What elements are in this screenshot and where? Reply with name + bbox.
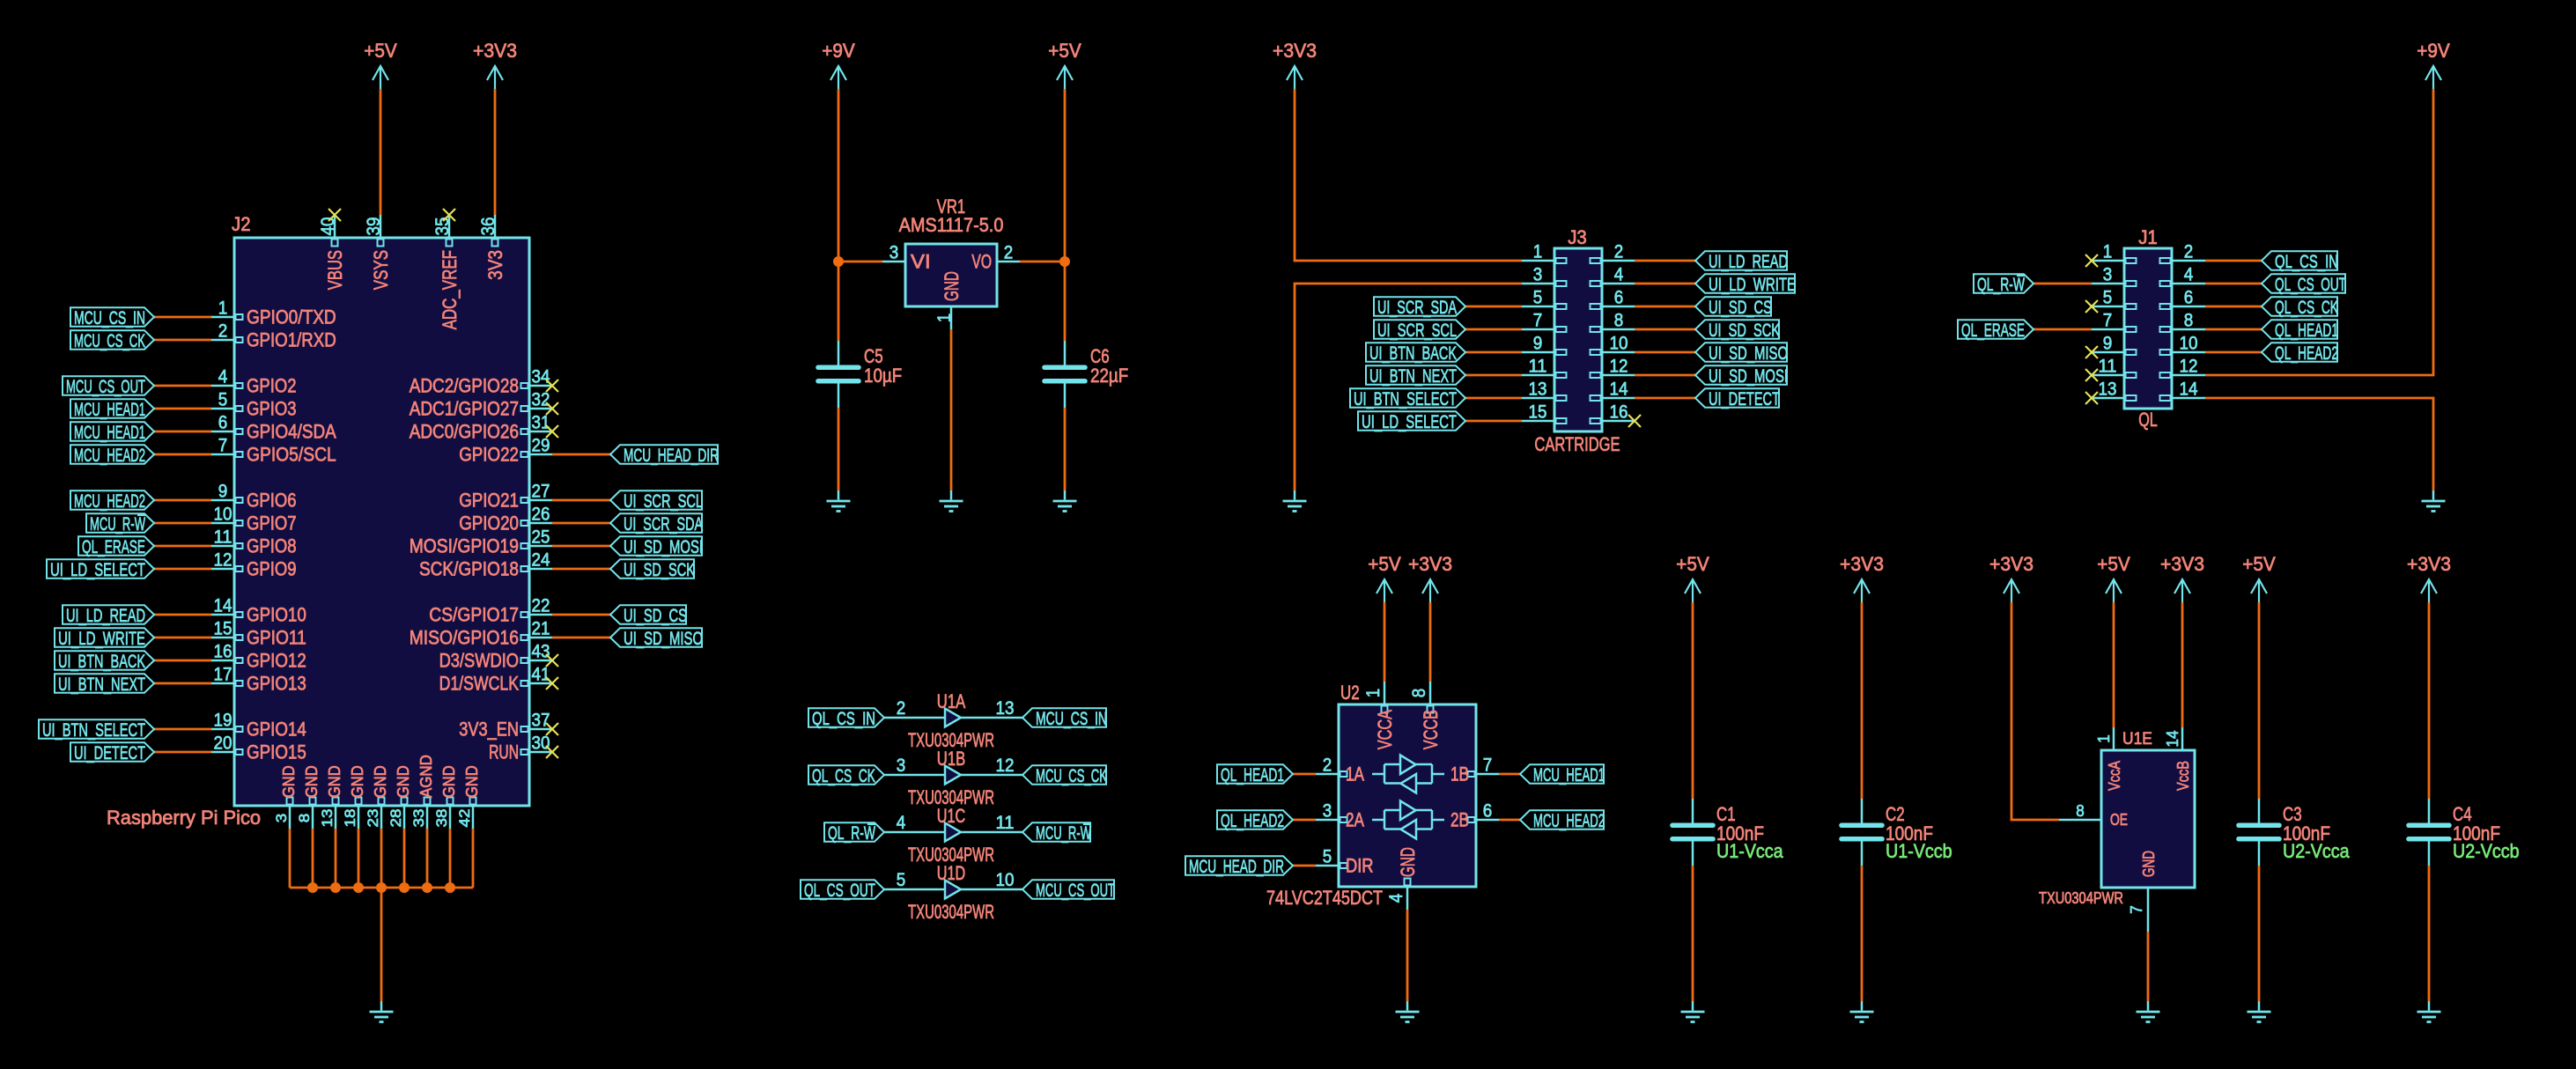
wire UI_BTN_NEXT to J3 pin 11 [1465,374,1522,377]
power symbol +5V above VR1 output [1048,40,1081,89]
wire C5 to ground [838,408,840,490]
svg-text:VCCB: VCCB [1420,710,1442,749]
power symbol +3V3 above J2 pin 36 (3V3) [473,40,517,89]
no-connect on J1 pin 1 [2085,254,2098,267]
svg-text:1B: 1B [1450,763,1469,785]
svg-text:VccB: VccB [2174,761,2192,791]
svg-text:QL_CS_OUT: QL_CS_OUT [2275,274,2346,295]
wire C2 to ground [1861,866,1864,1001]
ground symbol below U2 [1396,1001,1420,1022]
svg-text:UI_BTN_NEXT: UI_BTN_NEXT [58,674,145,695]
ground symbol below U1E [2137,1001,2160,1022]
global label QL_R-W [1974,274,2033,295]
svg-text:GPIO11: GPIO11 [247,627,306,649]
wire J1 pin 12 to +9V [2205,89,2433,375]
svg-text:AMS1117-5.0: AMS1117-5.0 [899,214,1004,236]
svg-text:GND: GND [303,765,321,798]
regulator VR1 body [905,244,997,306]
capacitor C1 [1672,799,1713,866]
power symbol +5V above C1 [1676,553,1709,602]
global label QL_ERASE [78,536,154,557]
wire J2 pin 3 to ground bus [289,829,292,888]
svg-text:UI_BTN_SELECT: UI_BTN_SELECT [1354,388,1457,409]
svg-text:36: 36 [478,217,498,236]
svg-text:10: 10 [214,505,233,525]
svg-text:ADC0/GPIO26: ADC0/GPIO26 [410,421,519,443]
power symbol +9V right of J1 [2417,40,2450,89]
svg-text:37: 37 [532,711,550,731]
global label QL_CS_IN [808,708,884,729]
wire J2 pin 8 to ground bus [312,829,314,888]
svg-text:GND: GND [326,765,343,798]
svg-text:QL_R-W: QL_R-W [828,822,875,844]
svg-text:12: 12 [214,550,233,571]
svg-text:23: 23 [365,809,381,828]
global label MCU_CS_IN [70,307,154,328]
J2 pin 26 (GPIO20) [459,505,552,534]
J3 pin 16 [1591,402,1635,424]
J2 pin 8 (GND) [296,765,321,829]
svg-text:2: 2 [2184,242,2194,262]
global label QL_HEAD2 [1217,810,1293,831]
svg-text:MCU_HEAD1: MCU_HEAD1 [74,422,145,443]
wire C6 to ground [1064,408,1067,490]
U1C pin 11 (output) [961,813,1022,833]
J2 pin 7 (GPIO5/SCL) [211,436,336,466]
global label UI_SD_MISO [1695,343,1788,364]
J2 pin 4 (GPIO2) [211,367,297,397]
global label MCU_HEAD1 [1520,764,1605,785]
global label UI_LD_SELECT [47,559,154,580]
J2 pin 11 (GPIO8) [211,527,297,557]
global label UI_BTN_BACK [55,651,154,672]
global label QL_HEAD1 [2262,320,2338,341]
wire MCU_HEAD2 to J2 pin 7 [154,453,211,456]
J1 pin 4 [2160,265,2206,287]
no-connect on J2 pin 32 [546,402,558,415]
J1 pin 5 [2092,288,2137,310]
J3 pin 13 [1522,380,1567,402]
J2 pin 37 (3V3_EN) [459,711,552,741]
svg-text:3: 3 [889,243,899,263]
svg-text:10: 10 [2180,334,2198,354]
svg-text:GPIO21: GPIO21 [459,490,519,512]
svg-text:2: 2 [1323,756,1332,776]
wire C3 to ground [2258,866,2261,1001]
svg-text:1: 1 [218,299,228,319]
svg-text:U1B: U1B [937,748,965,770]
wire J1 pin 2 to QL_CS_IN [2205,260,2262,262]
svg-text:40: 40 [318,217,338,236]
svg-text:14: 14 [2164,731,2181,748]
svg-text:QL: QL [2138,409,2158,431]
buffer U1A (TXU0304PWR) [908,690,994,751]
wire MCU_CS_CK to J2 pin 2 [154,339,211,342]
U2 bidirectional buffer glyph at 1A/B channel [1372,756,1444,793]
svg-text:ADC_VREF: ADC_VREF [439,250,461,329]
svg-text:U1C: U1C [937,805,965,827]
global label UI_SD_SCK [1695,320,1780,341]
wire MCU_HEAD2 to J2 pin 9 [154,499,211,502]
svg-text:9: 9 [2103,334,2113,354]
svg-text:1: 1 [2095,734,2113,743]
svg-text:2: 2 [897,698,906,719]
svg-text:GPIO1/RXD: GPIO1/RXD [247,329,336,351]
svg-text:MCU_CS_CK: MCU_CS_CK [1036,765,1107,786]
svg-text:25: 25 [532,527,550,548]
junction on ground bus [376,882,387,893]
global label QL_CS_IN [2262,251,2338,272]
wire J2 pin 28 to ground bus [403,829,406,888]
connector J3 body (CARTRIDGE) [1554,248,1602,431]
junction on ground bus [422,882,432,893]
J2 pin 15 (GPIO11) [211,619,306,649]
svg-text:7: 7 [2128,905,2145,914]
wire UI_LD_SELECT to J3 pin 15 [1465,420,1522,423]
wire +3V3 to U2 pin 8 [1429,602,1432,682]
power symbol +9V above VR1 [822,40,855,89]
global label UI_SD_CS [610,605,687,626]
U1B pin 12 (output) [961,756,1022,776]
ground symbol below VR1 [940,490,963,512]
svg-text:MCU_HEAD_DIR: MCU_HEAD_DIR [624,445,719,466]
J2 pin 41 (D1/SWCLK) [439,665,552,695]
svg-text:GND: GND [1397,847,1419,877]
J2 pin 43 (D3/SWDIO) [439,642,552,672]
no-connect on J1 pin 13 [2085,392,2098,404]
global label UI_LD_WRITE [55,628,154,649]
svg-text:MCU_HEAD2: MCU_HEAD2 [1533,810,1605,831]
wire QL_ERASE to J2 pin 11 [154,545,211,548]
svg-text:GPIO9: GPIO9 [247,558,297,580]
buffer U1B (TXU0304PWR) [908,748,994,808]
J2 pin 40 (VBUS) [318,215,346,290]
U2 pin 3 (2A) [1316,801,1364,831]
J3 pin 10 [1591,334,1635,356]
svg-text:J3: J3 [1568,226,1587,248]
svg-text:5: 5 [1323,847,1332,867]
svg-text:9: 9 [218,482,228,502]
wire J2 pin 18 to ground bus [358,829,360,888]
svg-text:9: 9 [1533,334,1543,354]
svg-text:UI_SCR_SCL: UI_SCR_SCL [624,490,703,512]
global label MCU_CS_CK [70,330,154,351]
svg-text:U1-Vcca: U1-Vcca [1716,840,1783,862]
no-connect on J1 pin 5 [2085,300,2098,313]
svg-text:MCU_CS_IN: MCU_CS_IN [1036,708,1107,729]
connector J1 body (QL) [2124,248,2172,409]
global label UI_SCR_SDA [610,513,703,534]
svg-text:MCU_HEAD_DIR: MCU_HEAD_DIR [1189,856,1284,877]
U1A pin 13 (output) [961,698,1022,719]
wire +3V3 to U1E pin 8 (OE) [2011,602,2059,820]
buffer U1D (TXU0304PWR) [908,862,994,923]
ground symbol below J1 pin 14 wire [2422,490,2446,512]
svg-text:14: 14 [214,596,233,616]
svg-text:+9V: +9V [822,40,855,62]
svg-text:QL_HEAD1: QL_HEAD1 [1221,764,1284,785]
svg-text:UI_SD_SCK: UI_SD_SCK [1709,320,1780,341]
junction on ground bus [445,882,455,893]
svg-text:GPIO0/TXD: GPIO0/TXD [247,306,336,328]
global label QL_R-W [824,822,884,844]
J3 pin 12 [1591,357,1635,379]
svg-text:4: 4 [218,367,228,387]
svg-text:3: 3 [897,756,906,776]
svg-text:U2-Vccb: U2-Vccb [2453,840,2520,862]
wire VR1 pin 2 to +5V node [1020,261,1065,263]
svg-text:U2: U2 [1340,682,1360,704]
svg-text:38: 38 [433,809,450,828]
svg-text:U1E: U1E [2122,729,2152,748]
svg-text:13: 13 [319,809,336,828]
svg-text:GPIO20: GPIO20 [459,512,519,534]
svg-text:30: 30 [532,734,550,754]
svg-text:ADC2/GPIO28: ADC2/GPIO28 [410,375,519,397]
svg-text:12: 12 [996,756,1015,776]
no-connect on J3 pin 16 [1628,415,1641,427]
svg-text:39: 39 [364,217,384,236]
U1E pin 7 (GND) [2128,851,2158,932]
J2 pin 30 (RUN) [489,734,552,763]
svg-text:MOSI/GPIO19: MOSI/GPIO19 [410,535,519,557]
wire J2 pin 26 to UI_SCR_SDA [552,522,610,525]
J1 pin 3 [2092,265,2137,287]
J3 pin 3 [1522,265,1567,287]
no-connect on J2 pin 40 [328,209,341,221]
svg-text:5: 5 [218,390,228,410]
svg-text:MCU_HEAD1: MCU_HEAD1 [1533,764,1605,785]
global label UI_DETECT [1695,388,1780,409]
svg-text:GPIO10: GPIO10 [247,604,306,626]
svg-text:29: 29 [532,436,550,456]
J1 pin 13 [2092,380,2137,402]
svg-text:UI_SD_CS: UI_SD_CS [624,605,687,626]
wire QL_R-W to J1 pin 3 [2033,283,2092,285]
wire VR1 pin 1 to ground [950,329,953,490]
svg-text:27: 27 [532,482,550,502]
J2 pin 28 (GND) [388,765,412,829]
svg-text:TXU0304PWR: TXU0304PWR [908,901,994,923]
U1E pin 1 (VccA) [2095,727,2123,791]
no-connect on J2 pin 31 [546,425,558,438]
svg-text:31: 31 [532,413,550,433]
J2 pin 35 (ADC_VREF) [432,215,461,329]
svg-text:UI_SCR_SDA: UI_SCR_SDA [1377,297,1457,318]
J2 pin 29 (GPIO22) [459,436,552,466]
global label UI_SD_MOSI [1695,365,1788,387]
svg-text:2B: 2B [1450,809,1469,831]
global label MCU_R-W [86,513,154,534]
wire +9V down to VR1 input node [838,89,840,262]
global label UI_SD_MOSI [610,536,703,557]
ground symbol below C1 [1681,1001,1705,1022]
capacitor C3 [2239,799,2279,866]
no-connect on J2 pin 37 [546,723,558,735]
svg-text:3V3_EN: 3V3_EN [459,719,519,741]
ground symbol below C4 [2417,1001,2441,1022]
svg-text:74LVC2T45DCT: 74LVC2T45DCT [1266,887,1383,909]
svg-text:5: 5 [897,870,906,890]
svg-text:MCU_HEAD2: MCU_HEAD2 [74,445,145,466]
global label UI_SCR_SCL [610,490,703,512]
U2 pin 2 (1A) [1316,756,1364,785]
svg-text:MCU_CS_OUT: MCU_CS_OUT [1036,880,1115,901]
global label UI_DETECT [70,742,154,763]
no-connect on J1 pin 11 [2085,369,2098,381]
J2 pin 17 (GPIO13) [211,665,306,695]
ground symbol below J3 pin 3 wire [1283,490,1307,512]
J1 pin 6 [2160,288,2206,310]
J1 pin 9 [2092,334,2137,356]
J3 pin 7 [1522,311,1567,333]
svg-text:GND: GND [349,765,366,798]
junction on ground bus [330,882,341,893]
global label MCU_HEAD1 [70,399,154,420]
svg-text:D1/SWCLK: D1/SWCLK [439,673,519,695]
svg-text:4: 4 [2184,265,2194,285]
svg-text:42: 42 [456,809,473,828]
ground symbol below C5 [827,490,851,512]
J3 pin 2 [1591,242,1635,264]
global label UI_BTN_NEXT [1366,365,1465,387]
svg-text:2: 2 [1614,242,1624,262]
J1 pin 14 [2160,380,2206,402]
svg-text:UI_SD_SCK: UI_SD_SCK [624,559,695,580]
wire +3V3 to J2 3V3 pin 36 [494,89,497,215]
svg-text:U1-Vccb: U1-Vccb [1886,840,1952,862]
svg-text:3: 3 [1323,801,1332,822]
svg-text:QL_ERASE: QL_ERASE [82,536,145,557]
wire +5V to U1E pin 1 [2113,602,2115,727]
svg-text:GND: GND [395,765,412,798]
svg-text:GPIO12: GPIO12 [247,650,306,672]
J2 pin 16 (GPIO12) [211,642,306,672]
wire +5V to U2 pin 1 [1384,602,1386,682]
svg-text:UI_SCR_SCL: UI_SCR_SCL [1377,320,1457,341]
J2 pin 2 (GPIO1/RXD) [211,321,336,351]
U1C pin 4 (input) [884,813,945,833]
svg-text:UI_BTN_BACK: UI_BTN_BACK [58,651,145,672]
svg-text:3V3: 3V3 [484,250,506,280]
buffer U1C (TXU0304PWR) [908,805,994,866]
svg-text:26: 26 [532,505,550,525]
J2 pin 22 (CS/GPIO17) [429,596,552,626]
connector J2 body (Raspberry Pi Pico) [234,238,529,806]
wire +5V to C3 [2258,602,2261,799]
svg-text:J1: J1 [2138,226,2158,248]
wire J2 pin 42 to ground bus [472,829,475,888]
U2 pin 1 (VCCA) [1363,682,1396,749]
global label UI_BTN_BACK [1366,343,1465,364]
svg-text:13: 13 [2099,380,2117,400]
wire MCU_CS_OUT to J2 pin 4 [154,385,211,387]
J3 pin 4 [1591,265,1635,287]
wire J3 pin 4 to UI_LD_WRITE [1635,283,1695,285]
U1A pin 2 (input) [884,698,945,719]
wire UI_LD_WRITE to J2 pin 15 [154,637,211,639]
power symbol +5V above J2 pin 39 (VSYS) [364,40,397,89]
J1 pin 7 [2092,311,2137,333]
J2 pin 1 (GPIO0/TXD) [211,299,336,328]
svg-text:22µF: 22µF [1090,365,1128,387]
svg-text:MCU_R-W: MCU_R-W [90,513,145,534]
svg-text:SCK/GPIO18: SCK/GPIO18 [419,558,519,580]
svg-text:UI_LD_SELECT: UI_LD_SELECT [50,559,145,580]
svg-text:J2: J2 [232,213,251,235]
svg-text:OE: OE [2110,811,2128,829]
svg-text:35: 35 [432,217,453,236]
wire J1 pin 10 to QL_HEAD2 [2205,351,2262,354]
wire U2 pin 7 to MCU_HEAD1 [1499,773,1520,776]
svg-text:UI_LD_READ: UI_LD_READ [1709,251,1788,272]
J2 pin 42 (GND) [456,765,481,829]
svg-text:MCU_HEAD2: MCU_HEAD2 [74,490,145,512]
svg-text:MCU_CS_OUT: MCU_CS_OUT [66,376,145,397]
svg-text:6: 6 [218,413,228,433]
svg-text:MISO/GPIO16: MISO/GPIO16 [410,627,519,649]
svg-text:6: 6 [2184,288,2194,308]
svg-text:+5V: +5V [1368,553,1401,575]
global label UI_LD_WRITE [1695,274,1796,295]
svg-text:1: 1 [1533,242,1543,262]
svg-text:DIR: DIR [1346,855,1374,877]
global label UI_LD_SELECT [1358,411,1465,432]
global label QL_HEAD2 [2262,343,2338,364]
J2 pin 38 (GND) [433,765,458,829]
svg-text:UI_SD_CS: UI_SD_CS [1709,297,1772,318]
svg-text:Raspberry Pi Pico: Raspberry Pi Pico [107,807,261,829]
wire J2 pin 13 to ground bus [335,829,337,888]
wire UI_LD_SELECT to J2 pin 12 [154,568,211,571]
wire UI_SCR_SDA to J3 pin 5 [1465,306,1522,308]
svg-text:UI_SD_MOSI: UI_SD_MOSI [624,536,703,557]
global label UI_SD_CS [1695,297,1772,318]
svg-text:+3V3: +3V3 [2407,553,2451,575]
svg-text:2: 2 [218,321,228,342]
svg-text:+3V3: +3V3 [1989,553,2033,575]
wire J1 pin 8 to QL_HEAD1 [2205,328,2262,331]
U1D pin 10 (output) [961,870,1022,890]
global label MCU_HEAD2 [70,445,154,466]
svg-text:QL_HEAD1: QL_HEAD1 [2275,320,2338,341]
svg-text:GPIO6: GPIO6 [247,490,297,512]
J2 pin 19 (GPIO14) [211,711,306,741]
svg-text:QL_CS_IN: QL_CS_IN [2275,251,2338,272]
svg-text:VccA: VccA [2106,761,2123,791]
svg-text:6: 6 [1614,288,1624,308]
wire J2 pin 29 to MCU_HEAD_DIR [552,453,610,456]
svg-text:4: 4 [897,813,906,833]
J2 pin 36 (3V3) [478,215,506,280]
J2 pin 31 (ADC0/GPIO26) [410,413,552,443]
J2 pin 33 (AGND) [410,755,435,829]
svg-text:QL_HEAD2: QL_HEAD2 [2275,343,2338,364]
svg-text:MCU_HEAD1: MCU_HEAD1 [74,399,145,420]
svg-text:MCU_CS_CK: MCU_CS_CK [74,330,145,351]
junction on ground bus [399,882,410,893]
svg-text:4: 4 [1614,265,1624,285]
J1 pin 8 [2160,311,2206,333]
wire MCU_HEAD1 to J2 pin 5 [154,408,211,410]
svg-text:VI: VI [911,251,931,273]
svg-text:D3/SWDIO: D3/SWDIO [439,650,519,672]
svg-text:UI_BTN_SELECT: UI_BTN_SELECT [42,719,145,741]
svg-text:43: 43 [532,642,550,662]
wire output node down to C6 [1064,262,1067,341]
svg-text:UI_BTN_NEXT: UI_BTN_NEXT [1369,365,1457,387]
svg-text:QL_ERASE: QL_ERASE [1961,320,2025,341]
